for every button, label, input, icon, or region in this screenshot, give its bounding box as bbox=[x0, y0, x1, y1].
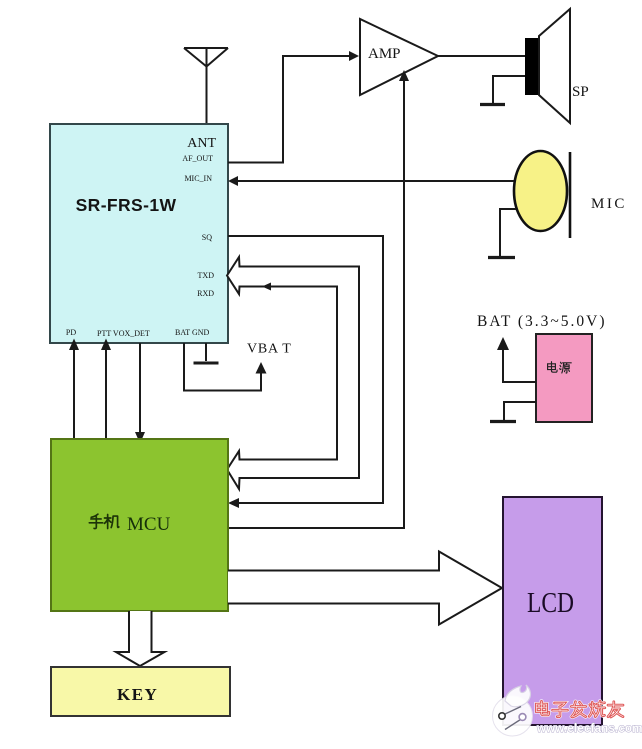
wire GND pin down bbox=[205, 343, 207, 361]
op-amp AMP U2 bbox=[360, 19, 438, 95]
wire power to VBAT arrow up bbox=[503, 347, 536, 382]
double block arrow TXD/RXD bus between radio and MCU bbox=[227, 257, 359, 489]
ground (microphone) bbox=[488, 256, 515, 259]
svg-text:RXD: RXD bbox=[197, 289, 214, 298]
wire VOX_DET from radio to MCU bbox=[139, 343, 141, 434]
label MCU (hand-drawn CJK for shou-ji) bbox=[89, 514, 119, 528]
svg-text:KEY: KEY bbox=[117, 685, 158, 704]
ground (radio GND pin) bbox=[194, 362, 219, 365]
wire MIC to MIC_IN bbox=[236, 180, 514, 182]
wire SQ to MCU bbox=[228, 236, 383, 503]
svg-text:SP: SP bbox=[572, 84, 589, 100]
svg-text:www.elecfans.com: www.elecfans.com bbox=[536, 723, 642, 735]
radio module U1 SR-FRS-1W bbox=[50, 124, 228, 343]
svg-text:TXD: TXD bbox=[198, 271, 215, 280]
arrowhead SQ into MCU bbox=[228, 498, 239, 508]
watermark logo bbox=[493, 685, 533, 736]
block arrow MCU to KEY bbox=[116, 611, 165, 666]
ground (power supply) bbox=[490, 420, 516, 423]
label dian-yuan (power) hand-drawn CJK bbox=[548, 362, 572, 373]
KEY block bbox=[51, 667, 230, 716]
svg-text:BAT (3.3~5.0V): BAT (3.3~5.0V) bbox=[477, 313, 607, 330]
wire MIC to ground bbox=[500, 209, 516, 256]
antenna bbox=[184, 48, 228, 124]
MCU block bbox=[51, 439, 228, 611]
speaker SP bbox=[525, 9, 589, 123]
svg-text:MIC_IN: MIC_IN bbox=[184, 174, 212, 183]
svg-text:MCU: MCU bbox=[127, 514, 171, 535]
wire PTT from MCU to radio bbox=[105, 348, 107, 439]
wire BAT pin to VBAT bbox=[184, 343, 261, 391]
svg-text:BAT GND: BAT GND bbox=[175, 328, 210, 337]
wire AMP output to speaker bbox=[438, 55, 525, 57]
svg-text:PD: PD bbox=[66, 328, 76, 337]
arrowhead PD into radio bbox=[69, 339, 79, 351]
svg-text:PTT VOX_DET: PTT VOX_DET bbox=[97, 329, 150, 338]
arrowhead VBAT up bbox=[256, 362, 267, 374]
svg-text:AMP: AMP bbox=[368, 46, 401, 62]
microphone MIC bbox=[514, 151, 627, 238]
svg-text:VBA T: VBA T bbox=[247, 342, 292, 357]
svg-text:SQ: SQ bbox=[202, 233, 212, 242]
svg-text:MIC: MIC bbox=[591, 196, 627, 212]
svg-text:ANT: ANT bbox=[187, 136, 216, 151]
ground (speaker) bbox=[480, 103, 505, 106]
svg-text:LCD: LCD bbox=[527, 587, 574, 619]
arrowhead into MIC_IN bbox=[228, 176, 238, 186]
arrowhead VOX_DET into MCU bbox=[135, 432, 145, 444]
svg-text:SR-FRS-1W: SR-FRS-1W bbox=[76, 195, 177, 215]
wire AF_OUT to AMP input bbox=[228, 56, 351, 163]
wire PD from MCU to radio bbox=[73, 348, 75, 439]
wire power to ground bbox=[504, 402, 536, 420]
svg-text:AF_OUT: AF_OUT bbox=[182, 154, 213, 163]
LCD block bbox=[503, 497, 602, 725]
arrowhead RXD on bus lower line bbox=[262, 283, 271, 291]
block arrow MCU to LCD bbox=[228, 552, 502, 625]
watermark text dian-zi-fa-shao-you (elecfans) bbox=[536, 701, 623, 717]
arrowhead into AMP bbox=[349, 51, 359, 61]
power supply block bbox=[536, 334, 592, 422]
wire speaker to ground bbox=[493, 76, 525, 103]
wire MCU to AMP second input bbox=[228, 78, 404, 528]
arrowhead power VBAT bbox=[497, 337, 509, 350]
arrowhead into AMP bottom bbox=[399, 70, 409, 81]
arrowhead PTT into radio bbox=[101, 339, 111, 351]
